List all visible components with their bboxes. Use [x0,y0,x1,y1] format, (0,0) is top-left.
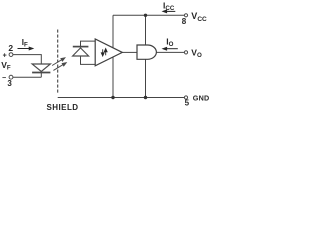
svg-text:ICC: ICC [163,0,175,12]
terminal VO pin 6 [184,51,187,54]
wire pin3 to LED cathode [13,73,41,78]
current arrow IO [163,47,178,50]
svg-text:VO: VO [191,48,202,60]
gate U2 [137,45,156,59]
wire pin2 to LED anode [13,55,41,65]
top rail VCC wire [113,14,185,16]
svg-text:IF: IF [22,38,28,49]
junction dot bottom rail right [144,96,147,99]
amp icon down-arrow [101,49,104,56]
vertical power wire amp [112,15,114,97]
terminal pin 3 [9,75,13,79]
wire photodiode anode to amp [81,56,96,64]
light arrow 1 [52,58,65,66]
op-amp U1 [95,39,122,66]
wire amp output to gate [122,51,137,53]
wire photodiode cathode to amp [81,41,96,46]
svg-text:8: 8 [182,17,187,26]
svg-text:−: − [2,75,6,82]
vertical power wire gate [145,15,147,97]
photodiode [73,47,89,56]
terminal VCC pin 8 [184,14,187,17]
LED D1 [32,64,50,73]
wire gate output to VO terminal [156,51,184,53]
svg-text:+: + [3,52,7,59]
light arrow 2 [53,63,66,71]
current arrow IF [18,47,33,50]
terminal GND pin 5 [184,96,187,99]
svg-text:SHIELD: SHIELD [47,103,79,112]
svg-text:3: 3 [7,79,12,88]
svg-text:GND: GND [193,93,210,102]
current arrow ICC [163,10,175,13]
amp icon up-arrow [104,49,107,56]
bottom rail GND wire [58,97,185,99]
svg-text:5: 5 [185,99,190,108]
svg-text:VCC: VCC [191,11,207,23]
shield dashed line [57,30,59,95]
junction dot bottom rail left [111,96,114,99]
svg-text:VF: VF [1,60,11,72]
svg-text:IO: IO [166,36,173,48]
terminal pin 2 [9,53,13,57]
junction dot top rail [144,14,147,17]
svg-text:2: 2 [8,43,13,53]
